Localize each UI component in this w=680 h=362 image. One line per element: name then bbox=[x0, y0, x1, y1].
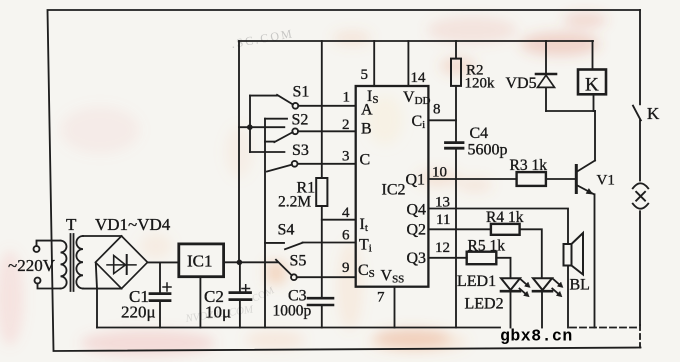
ground rail bbox=[97, 327, 500, 329]
AC source terminal top bbox=[34, 246, 40, 252]
switch S5 arm bbox=[276, 260, 292, 276]
svg-text:220μ: 220μ bbox=[121, 303, 156, 322]
svg-text:LED1: LED1 bbox=[457, 273, 496, 290]
LED1 light arrows bbox=[520, 279, 527, 293]
switch S1 arm bbox=[277, 95, 293, 105]
transformer T secondary winding bbox=[76, 236, 83, 289]
LED2 light arrows bbox=[552, 279, 559, 293]
AC source terminal bottom bbox=[35, 278, 41, 284]
switch S2 contact circle bbox=[292, 128, 298, 134]
svg-text:K: K bbox=[585, 75, 599, 96]
svg-text:C4: C4 bbox=[470, 125, 489, 142]
svg-text:C: C bbox=[360, 152, 371, 169]
svg-text:R5 1k: R5 1k bbox=[468, 238, 506, 255]
wire bridge output to IC1 bbox=[148, 261, 179, 263]
relay coil K box bbox=[578, 70, 606, 95]
LED2 cathode bar bbox=[533, 290, 552, 293]
bridge rectifier VD1~VD4 diamond bbox=[96, 236, 148, 289]
wire rail to pin14 bbox=[407, 41, 409, 86]
wire R3 to V1 base bbox=[546, 178, 575, 180]
switch S1 contact circle bbox=[293, 103, 299, 109]
svg-text:10μ: 10μ bbox=[205, 303, 231, 322]
wire R4 to LED2 bbox=[520, 229, 542, 277]
svg-text:S5: S5 bbox=[290, 253, 307, 270]
wire S4 to pin6 bbox=[303, 242, 356, 244]
switch S2 arm bbox=[274, 132, 292, 142]
capacitor C1 leads bbox=[159, 262, 161, 327]
wire right frame dashed bottom bbox=[639, 325, 641, 348]
wire junction to V1 collector bbox=[594, 111, 596, 161]
IC2 box bbox=[356, 86, 429, 287]
wire pin13 Q4 to speaker bbox=[428, 209, 568, 245]
speaker BL cone bbox=[572, 233, 584, 275]
wire V1 emitter to ground rail bbox=[594, 194, 596, 327]
svg-text:120k: 120k bbox=[465, 76, 496, 92]
capacitor C3 lead bottom bbox=[321, 306, 323, 328]
wire S2 to pin2 bbox=[298, 130, 355, 132]
transformer T core bbox=[71, 234, 74, 291]
main V+ bus vertical bbox=[238, 41, 240, 262]
capacitor C1 plates bbox=[150, 294, 170, 301]
resistor R3 box bbox=[517, 172, 546, 186]
diode VD5 lead bottom bbox=[545, 88, 547, 111]
svg-text:gbx8.cn: gbx8.cn bbox=[500, 327, 573, 346]
transistor V1 emitter slant bbox=[578, 186, 595, 195]
wire S1 bus vertical bbox=[249, 96, 251, 152]
switch S4 arm bbox=[285, 243, 303, 250]
relay contact K (on right frame) bbox=[633, 106, 641, 121]
svg-text:6: 6 bbox=[342, 228, 350, 244]
svg-text:S3: S3 bbox=[292, 142, 309, 159]
svg-text:K: K bbox=[647, 104, 660, 123]
switch S5 contact circle bbox=[291, 274, 297, 280]
wire secondary bottom to bridge bottom corner bbox=[83, 288, 122, 290]
diode VD5 lead top bbox=[545, 41, 547, 73]
switch S2 upper stub bbox=[265, 118, 287, 120]
wire pin12 Q3 to R5 bbox=[428, 257, 466, 259]
svg-text:Q4: Q4 bbox=[407, 202, 427, 219]
svg-text:BL: BL bbox=[570, 277, 590, 294]
transformer T primary winding bbox=[61, 241, 67, 289]
capacitor C3 plates bbox=[308, 298, 333, 305]
svg-text:Q2: Q2 bbox=[407, 222, 427, 239]
svg-text:3: 3 bbox=[342, 149, 350, 165]
wire R1 to pin4 and C3 bbox=[321, 206, 323, 297]
wire right frame lower bbox=[639, 211, 641, 325]
resistor R4 box bbox=[491, 224, 520, 235]
wire rail to R2 bbox=[455, 41, 457, 59]
resistor R2 box bbox=[451, 59, 461, 86]
wire right frame mid bbox=[639, 120, 641, 180]
diode VD5 cathode bar bbox=[536, 73, 556, 76]
resistor R5 box bbox=[467, 252, 497, 265]
regulator IC1 box bbox=[179, 244, 224, 277]
wire VD5 to relay coil bottom bbox=[546, 110, 595, 112]
wire speaker to ground rail bbox=[567, 266, 569, 328]
wire bus to S2 row bbox=[239, 126, 284, 128]
switch S1 stub bbox=[250, 95, 277, 97]
svg-text:LED2: LED2 bbox=[465, 296, 504, 313]
diode VD5 triangle bbox=[538, 75, 555, 87]
wire ground drop to rail bbox=[96, 289, 98, 328]
svg-text:S2: S2 bbox=[292, 111, 309, 128]
alarm bell/lamp symbol bbox=[633, 183, 648, 208]
wire rail to pin5 bbox=[373, 41, 375, 86]
svg-text:1: 1 bbox=[343, 90, 351, 106]
switch S3 stub bbox=[250, 151, 284, 153]
transistor V1 collector slant bbox=[578, 161, 596, 172]
wire R2 to pin8 node bbox=[455, 86, 457, 142]
wire R5 to LED1 bbox=[496, 258, 510, 277]
wire terminal bottom to primary bbox=[38, 284, 61, 289]
svg-text:12: 12 bbox=[435, 240, 450, 256]
wire C4 down to ground rail bbox=[455, 150, 457, 328]
switch S4 stub bbox=[265, 242, 284, 244]
svg-text:2.2M: 2.2M bbox=[278, 194, 311, 211]
svg-text:S4: S4 bbox=[278, 222, 295, 239]
wire terminal top to primary bbox=[37, 241, 61, 246]
speaker BL box bbox=[564, 244, 572, 266]
LED1 lead to ground bbox=[510, 293, 512, 328]
svg-text:R4 1k: R4 1k bbox=[486, 209, 524, 226]
wire rail to R1 bbox=[321, 41, 323, 178]
wire secondary top to bridge bbox=[83, 235, 122, 237]
svg-text:VD5: VD5 bbox=[506, 75, 537, 92]
wire S5 to pin9 bbox=[297, 276, 356, 278]
LED1 cathode bar bbox=[501, 290, 520, 293]
resistor R1 box bbox=[316, 178, 327, 206]
wire pin7 to ground bbox=[394, 287, 396, 328]
svg-text:9: 9 bbox=[342, 260, 350, 276]
svg-text:R3 1k: R3 1k bbox=[510, 157, 548, 174]
wire pin11 Q2 to R4 bbox=[428, 228, 491, 230]
svg-text:7: 7 bbox=[377, 290, 385, 306]
svg-text:IC2: IC2 bbox=[382, 182, 406, 199]
switch S2 bus vertical bbox=[264, 119, 266, 328]
svg-text:14: 14 bbox=[411, 70, 427, 86]
LED1 triangle bbox=[501, 278, 520, 290]
svg-text:VD1~VD4: VD1~VD4 bbox=[95, 215, 171, 234]
svg-text:2: 2 bbox=[342, 117, 350, 133]
svg-text:11: 11 bbox=[436, 212, 450, 228]
wire S3 to pin3 bbox=[298, 163, 356, 165]
svg-text:Q3: Q3 bbox=[407, 250, 427, 267]
transistor V1 emitter arrow bbox=[587, 189, 593, 194]
node dot switch bus bbox=[247, 124, 253, 130]
capacitor C2 plates bbox=[230, 293, 251, 300]
svg-text:Q1: Q1 bbox=[406, 172, 426, 189]
bridge inner diode bbox=[107, 264, 136, 266]
svg-text:V1: V1 bbox=[597, 173, 615, 189]
svg-text:B: B bbox=[361, 121, 372, 138]
wire rail to relay coil K bbox=[592, 41, 594, 70]
svg-text:4: 4 bbox=[342, 205, 350, 221]
node dot IC1 output junction bbox=[237, 260, 243, 266]
svg-text:5: 5 bbox=[361, 67, 369, 83]
svg-text:8: 8 bbox=[433, 102, 441, 118]
svg-text:S1: S1 bbox=[293, 84, 310, 101]
LED2 lead to ground bbox=[541, 293, 543, 328]
svg-text:1000p: 1000p bbox=[273, 303, 312, 320]
svg-text:~220V: ~220V bbox=[8, 256, 56, 275]
switch S2 pivot stub bbox=[265, 141, 274, 143]
capacitor C2 leads bbox=[239, 262, 241, 327]
wire S1 to pin1 bbox=[298, 105, 355, 107]
wire pin8 bbox=[428, 119, 456, 121]
svg-text:T: T bbox=[66, 215, 77, 234]
transistor V1 base bar bbox=[575, 166, 578, 193]
wire relay coil to junction bbox=[593, 94, 595, 111]
switch S3 arm bbox=[267, 165, 292, 172]
svg-text:A: A bbox=[361, 102, 373, 119]
top supply rail bbox=[239, 40, 593, 42]
LED2 triangle bbox=[533, 278, 552, 290]
C2 plus sign bbox=[242, 285, 250, 293]
frame right side upper bbox=[639, 10, 641, 104]
wire IC1 ground pin to rail bbox=[199, 277, 201, 328]
wire IC1 output bbox=[224, 261, 278, 263]
wire bridge left corner down to ground bbox=[96, 263, 97, 288]
svg-text:5600p: 5600p bbox=[468, 142, 508, 159]
ground rail dashed right bbox=[570, 327, 639, 329]
capacitor C4 plates bbox=[446, 143, 464, 149]
switch S3 contact circle bbox=[292, 161, 298, 167]
C1 plus sign bbox=[163, 283, 171, 291]
svg-text:IC1: IC1 bbox=[187, 252, 213, 271]
wire pin10 Q1 to R3 bbox=[428, 178, 516, 180]
